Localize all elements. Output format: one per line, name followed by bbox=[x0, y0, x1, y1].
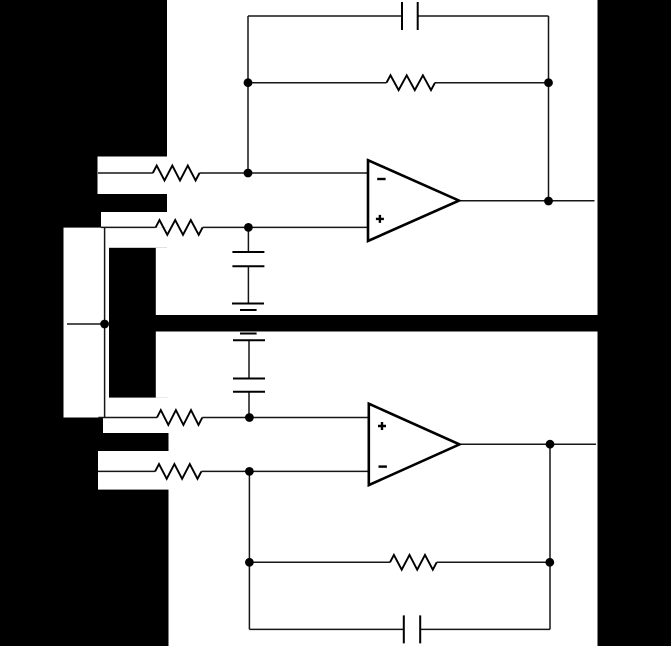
wire bottom horizontal left of C4 bbox=[249, 628, 550, 630]
node dot input 4 junction bbox=[245, 467, 254, 476]
node dot output 2 bbox=[546, 440, 555, 449]
wire C2 to ground G1 bbox=[247, 266, 249, 303]
wire right vertical top bbox=[548, 16, 550, 201]
wire C1 right to corner bbox=[418, 15, 549, 17]
white band input 2 bbox=[101, 212, 169, 228]
white band under black block bbox=[109, 398, 171, 418]
resistor R3 feedback top bbox=[387, 75, 436, 90]
wire input 2 bbox=[101, 226, 369, 228]
resistor R6 feedback bottom bbox=[390, 555, 437, 570]
node dot C3 tap bbox=[245, 413, 254, 422]
op-amp U1 bbox=[368, 160, 459, 241]
op-amp U2 plus label bbox=[378, 422, 386, 430]
white left strip bbox=[64, 228, 110, 418]
white band input 3 lower bbox=[103, 418, 171, 434]
op-amp U2 minus label bbox=[379, 465, 387, 467]
resistor R2 input2 bbox=[156, 220, 203, 235]
resistor R5 input4 bbox=[155, 464, 201, 479]
capacitor C1 top plates bbox=[402, 2, 418, 30]
capacitor C3 plates bbox=[233, 379, 265, 392]
op-amp U1 plus label bbox=[376, 215, 384, 223]
resistor R4 input3 bbox=[157, 410, 202, 425]
wire input 3 bbox=[98, 417, 368, 419]
wire input 4 bbox=[98, 470, 369, 472]
wire G2 to C3 bbox=[248, 340, 250, 378]
capacitor C2 plates bbox=[232, 252, 264, 266]
white sliver right of black block upper bbox=[156, 248, 169, 315]
wire left strip vertical bbox=[104, 227, 106, 417]
wire common tap bbox=[67, 323, 105, 325]
ground G2 bbox=[233, 334, 265, 341]
wire feedback resistor row left bbox=[248, 82, 387, 84]
white band input 4 bbox=[98, 451, 171, 490]
wire C2 stem top bbox=[247, 227, 249, 252]
capacitor C4 bottom plates bbox=[404, 615, 420, 643]
node dot feedback left top bbox=[244, 78, 253, 87]
wire input 1 bbox=[98, 172, 369, 174]
op-amp U2 bbox=[369, 404, 460, 485]
wire C3 stem bottom bbox=[248, 392, 250, 418]
op-amp U1 minus label bbox=[377, 178, 385, 180]
wire output 1 bbox=[459, 200, 595, 202]
white canvas bottom region bbox=[169, 332, 598, 646]
white canvas top region bbox=[167, 0, 598, 315]
white sliver right of black block lower bbox=[156, 332, 170, 398]
wire feedback 2 row right bbox=[437, 561, 550, 563]
resistor R1 input1 bbox=[153, 166, 200, 181]
ground G1 bbox=[232, 304, 264, 311]
node dot feedback right bottom bbox=[545, 558, 554, 567]
wire output 2 bbox=[460, 443, 597, 445]
wire top left vertical node A bbox=[247, 16, 249, 173]
wire feedback 2 row left bbox=[249, 561, 390, 563]
node dot inverting input top bbox=[244, 169, 253, 178]
wire top horizontal to C1 left bbox=[248, 15, 402, 17]
node dot feedback left bottom bbox=[245, 558, 254, 567]
wire right vertical bottom bbox=[549, 444, 551, 629]
node dot common tap bbox=[100, 320, 109, 329]
node dot feedback right top bbox=[544, 78, 553, 87]
wire feedback resistor row right bbox=[435, 82, 549, 84]
white band input 1 bbox=[98, 157, 170, 195]
node dot C2 tap bbox=[244, 223, 253, 232]
white gap under input2 band bbox=[109, 228, 169, 248]
node dot output 1 bbox=[544, 197, 553, 206]
wire left vertical bottom node bbox=[248, 471, 250, 629]
